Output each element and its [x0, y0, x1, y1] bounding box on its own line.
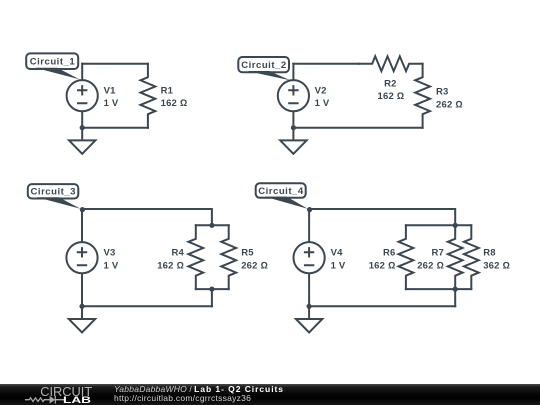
svg-text:LAB: LAB	[63, 395, 92, 405]
